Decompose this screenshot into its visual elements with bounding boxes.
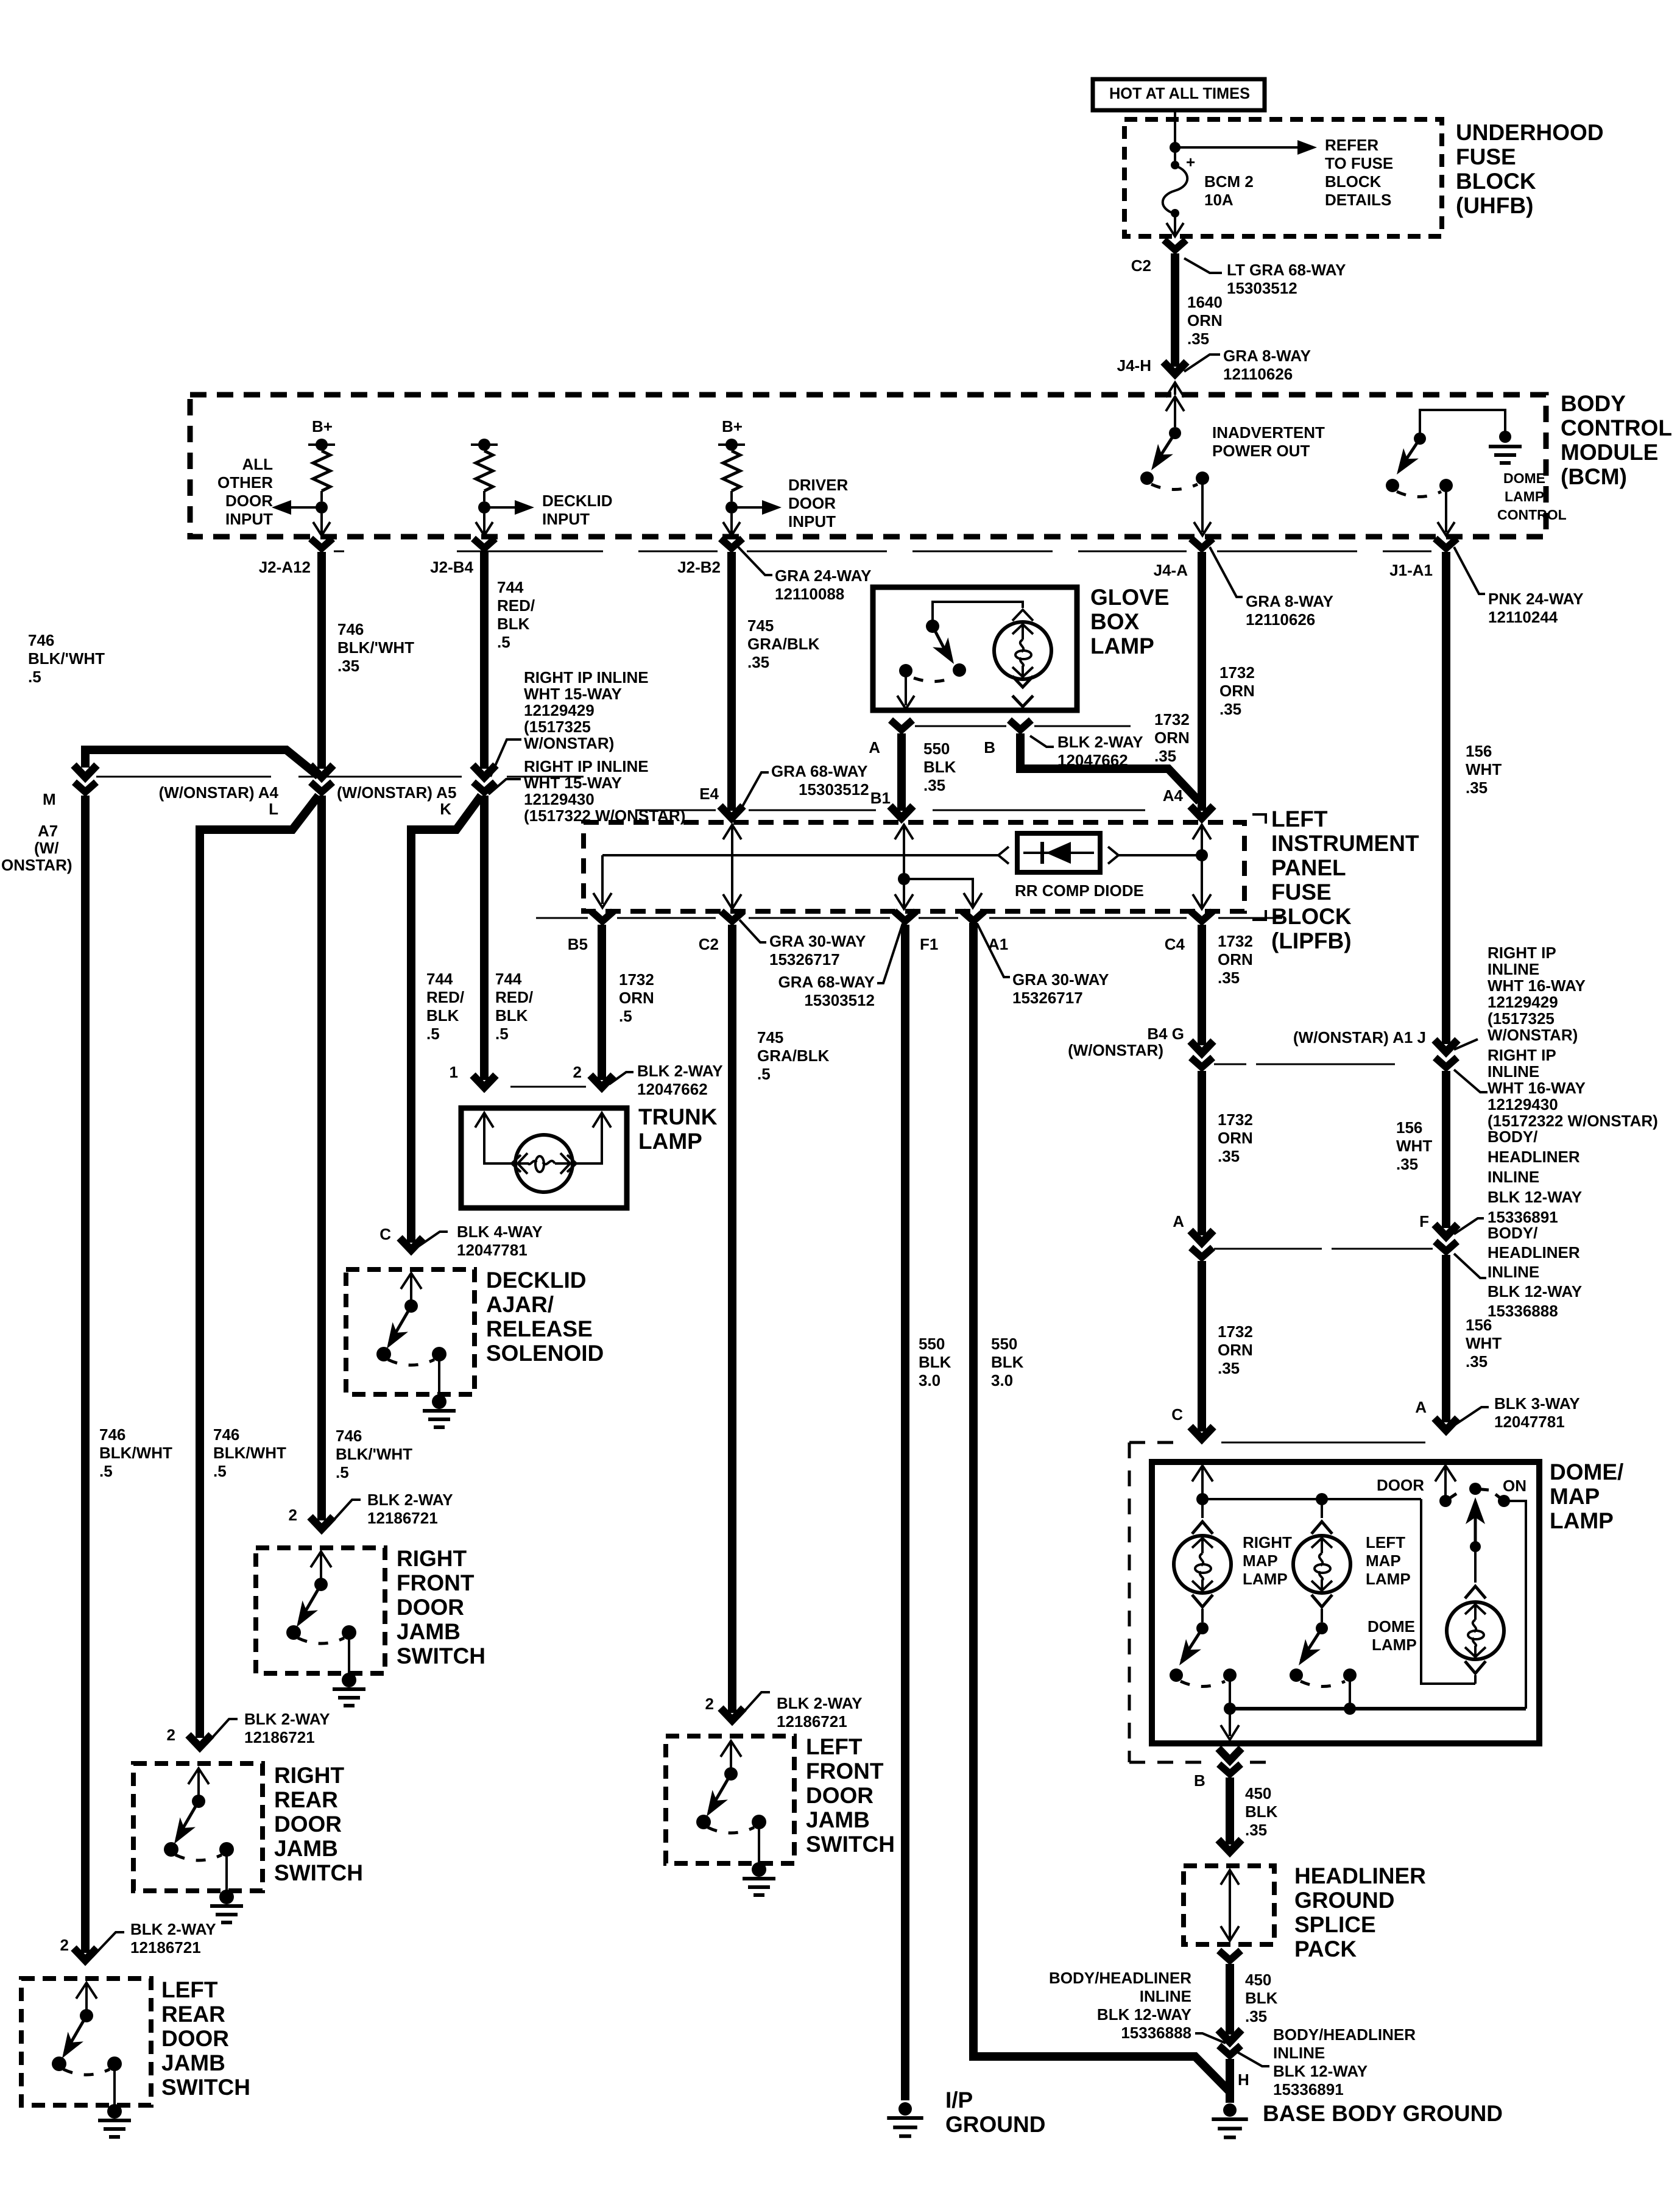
svg-text:RIGHT IP: RIGHT IP xyxy=(1488,944,1556,962)
svg-text:BLK/'WHT: BLK/'WHT xyxy=(337,638,414,657)
wire: DRIVER DOOR INPUT arrow xyxy=(732,506,767,509)
svg-text:B+: B+ xyxy=(722,417,743,436)
svg-text:.5: .5 xyxy=(757,1065,771,1083)
switch: BCM inadvertent power out driver xyxy=(1166,397,1184,411)
svg-text:RED/: RED/ xyxy=(497,596,535,615)
connector A (glove box lamp) xyxy=(891,720,912,730)
svg-text:A: A xyxy=(1415,1398,1427,1416)
svg-text:.35: .35 xyxy=(1466,1352,1488,1371)
svg-text:745: 745 xyxy=(747,616,774,635)
svg-text:1640: 1640 xyxy=(1187,293,1223,311)
svg-text:.5: .5 xyxy=(426,1025,440,1043)
svg-text:1: 1 xyxy=(450,1063,458,1081)
svg-text:JAMB: JAMB xyxy=(274,1836,338,1861)
svg-text:2: 2 xyxy=(289,1506,297,1524)
svg-text:.35: .35 xyxy=(1245,1821,1267,1839)
svg-text:C4: C4 xyxy=(1165,935,1185,953)
svg-text:(1517325: (1517325 xyxy=(1488,1009,1555,1028)
wire 1732 ORN 0.35: LIPFB C4 down to headliner inline G xyxy=(1198,925,1206,1045)
svg-text:12110626: 12110626 xyxy=(1223,365,1293,383)
svg-text:I/P: I/P xyxy=(945,2088,973,2113)
svg-text:BLK 4-WAY: BLK 4-WAY xyxy=(457,1223,543,1241)
svg-text:746: 746 xyxy=(213,1425,239,1444)
connector A1 (LIPFB): GRA 30-WAY 15326717 xyxy=(962,911,984,921)
svg-text:BCM 2: BCM 2 xyxy=(1204,172,1254,191)
svg-text:A7: A7 xyxy=(38,822,58,840)
connector F1 (LIPFB): GRA 68-WAY 15303512 xyxy=(894,911,916,921)
svg-text:BLK: BLK xyxy=(1245,1802,1278,1821)
svg-text:J2-B4: J2-B4 xyxy=(430,558,473,576)
diode D1: RR COMP DIODE xyxy=(998,847,1009,864)
svg-text:1732: 1732 xyxy=(1218,1322,1253,1341)
power feed label: HOT AT ALL TIMES xyxy=(1093,79,1265,110)
svg-text:1732: 1732 xyxy=(1218,932,1253,950)
connector pin 2 (trunk lamp): BLK 2-WAY 12047662 xyxy=(590,1075,613,1087)
wire 156 WHT 0.35: inline J down to body/headliner inline F xyxy=(1442,1071,1450,1228)
node: ground rail splice left map xyxy=(1344,1703,1356,1715)
svg-text:BLK 12-WAY: BLK 12-WAY xyxy=(1488,1282,1582,1301)
connector F / A inline: BODY/HEADLINER INLINE BLK 12-WAY xyxy=(1435,1224,1458,1237)
svg-text:C: C xyxy=(1171,1405,1183,1424)
svg-text:SWITCH: SWITCH xyxy=(806,1832,895,1857)
svg-text:LAMP: LAMP xyxy=(1243,1570,1288,1588)
svg-text:.35: .35 xyxy=(1245,2007,1267,2025)
svg-text:ORN: ORN xyxy=(1218,1341,1253,1359)
svg-text:INLINE: INLINE xyxy=(1488,1263,1539,1281)
svg-text:ORN: ORN xyxy=(1187,311,1223,330)
wire 746 BLK/WHT 0.5: branch to inline connector M xyxy=(85,750,319,776)
svg-text:GRA 30-WAY: GRA 30-WAY xyxy=(769,932,866,950)
wire 156 WHT 0.35: BCM J1-A1 down to right IP inline J xyxy=(1442,552,1450,1044)
wire 1732 ORN 0.35: BCM J4-A down to LIPFB A4 xyxy=(1198,552,1206,811)
svg-text:REAR: REAR xyxy=(274,1787,338,1812)
svg-text:BLOCK: BLOCK xyxy=(1325,172,1382,191)
lamp: dome lamp bulb xyxy=(1474,1547,1477,1583)
svg-text:.35: .35 xyxy=(1187,330,1209,348)
connector below splice pack xyxy=(1219,1951,1241,1960)
svg-text:.35: .35 xyxy=(923,776,945,794)
connector B (glove box lamp): BLK 2-WAY 12047662 xyxy=(1009,720,1031,730)
svg-text:E4: E4 xyxy=(699,785,719,803)
connector J1-A1 (BCM): PNK 24-WAY 12110244 xyxy=(1435,538,1457,548)
svg-text:MAP: MAP xyxy=(1366,1552,1401,1570)
svg-text:GRA 8-WAY: GRA 8-WAY xyxy=(1246,592,1333,610)
switch: left rear door jamb switch contacts xyxy=(76,1983,97,1999)
svg-text:15303512: 15303512 xyxy=(1227,279,1297,297)
svg-text:ORN: ORN xyxy=(1219,682,1255,700)
wire 746 BLK/WHT 0.5: connector M down to left rear door jamb switch xyxy=(81,796,90,1953)
svg-text:.5: .5 xyxy=(619,1007,632,1025)
wire: connector row line at trunk lamp xyxy=(510,1086,586,1088)
connector H inline: BODY/HEADLINER INLINE BLK 12-WAY 15336891 xyxy=(1218,2030,1241,2042)
svg-text:156: 156 xyxy=(1396,1118,1422,1137)
ground G400: BASE BODY GROUND xyxy=(1223,2103,1237,2117)
wire 1640 ORN 0.35: UHFB C2 to BCM J4-H xyxy=(1171,253,1179,367)
switch: right map lamp switch xyxy=(1196,1622,1209,1634)
wire: refer-to-fuse-block arrow xyxy=(1175,146,1297,149)
svg-text:INLINE: INLINE xyxy=(1140,1987,1191,2005)
svg-text:BLOCK: BLOCK xyxy=(1271,904,1352,929)
svg-text:BODY/HEADLINER: BODY/HEADLINER xyxy=(1049,1969,1191,1987)
svg-text:DOOR: DOOR xyxy=(225,492,273,510)
svg-text:12129430: 12129430 xyxy=(524,790,595,808)
svg-text:DETAILS: DETAILS xyxy=(1325,191,1391,209)
svg-text:(W/ONSTAR) A1 J: (W/ONSTAR) A1 J xyxy=(1293,1028,1426,1047)
svg-text:550: 550 xyxy=(923,740,950,758)
glove box lamp assembly box xyxy=(873,587,1077,710)
dome/map lamp outer dashed outline xyxy=(1129,1441,1185,1444)
svg-text:INADVERTENT: INADVERTENT xyxy=(1212,423,1325,442)
svg-text:POWER OUT: POWER OUT xyxy=(1212,442,1310,460)
svg-text:J1-A1: J1-A1 xyxy=(1389,561,1433,579)
svg-text:.35: .35 xyxy=(1218,969,1240,987)
svg-text:GRA/BLK: GRA/BLK xyxy=(757,1047,830,1065)
svg-text:BOX: BOX xyxy=(1090,609,1140,634)
wire: glove box B to BCM 1732 ORN splice at A4 xyxy=(1020,733,1199,802)
wire: dome/map lamp C entry xyxy=(1192,1466,1213,1481)
svg-text:RELEASE: RELEASE xyxy=(486,1316,593,1341)
svg-text:(BCM): (BCM) xyxy=(1561,464,1627,489)
svg-text:2: 2 xyxy=(167,1726,175,1744)
svg-text:HEADLINER: HEADLINER xyxy=(1488,1243,1580,1262)
svg-text:AJAR/: AJAR/ xyxy=(486,1292,554,1317)
connector C2 (LIPFB): GRA 30-WAY 15326717 xyxy=(721,911,743,921)
svg-text:LEFT: LEFT xyxy=(1366,1533,1405,1552)
ground: BCM dome lamp control internal ground xyxy=(1499,431,1511,443)
svg-text:DECKLID: DECKLID xyxy=(542,492,613,510)
node: map lamp feed splice left xyxy=(1316,1493,1328,1505)
wire 550 BLK 0.35: glove box A to LIPFB B1 xyxy=(897,733,906,811)
left rear door jamb switch outline xyxy=(21,1979,151,2105)
svg-text:.5: .5 xyxy=(28,668,41,686)
svg-text:RIGHT IP INLINE: RIGHT IP INLINE xyxy=(524,668,649,687)
wire: connector row line below LIPFB xyxy=(536,917,588,919)
svg-text:1732: 1732 xyxy=(619,970,654,989)
svg-text:FUSE: FUSE xyxy=(1456,144,1516,169)
left front door jamb switch outline xyxy=(666,1736,794,1863)
right IP inline label WHT 15-WAY 12129430 xyxy=(489,779,521,794)
svg-text:(W/ONSTAR) A5: (W/ONSTAR) A5 xyxy=(337,783,456,802)
svg-text:WHT: WHT xyxy=(1396,1137,1432,1155)
connector C4 (LIPFB) xyxy=(1191,911,1213,921)
svg-text:BLK 2-WAY: BLK 2-WAY xyxy=(637,1062,723,1080)
svg-text:DOOR: DOOR xyxy=(161,2026,229,2051)
wire: glove box lamp ground side chevrons xyxy=(1012,676,1033,687)
svg-text:OTHER: OTHER xyxy=(217,473,273,492)
wire 1732 ORN 0.35: inline G down to inline A xyxy=(1198,1071,1206,1235)
wire 746 BLK/WHT 0.5: A4-L jog down to right rear door jamb switch xyxy=(200,796,319,830)
svg-text:3.0: 3.0 xyxy=(919,1371,941,1389)
svg-text:BLK: BLK xyxy=(923,758,956,776)
svg-text:(LIPFB): (LIPFB) xyxy=(1271,928,1352,953)
svg-text:WHT: WHT xyxy=(1466,1334,1502,1352)
wire 156 WHT 0.35: inline F down to dome/map lamp A xyxy=(1442,1255,1450,1422)
wire: LIPFB branch B1 to A1 xyxy=(904,879,973,905)
wire 450 BLK 0.35: splice pack to body/headliner inline H xyxy=(1226,1964,1234,2035)
svg-text:DRIVER: DRIVER xyxy=(788,476,848,494)
svg-text:BLK: BLK xyxy=(426,1006,459,1025)
dome/map lamp assembly box xyxy=(1152,1462,1539,1743)
svg-text:12186721: 12186721 xyxy=(777,1712,847,1731)
svg-text:746: 746 xyxy=(28,631,54,649)
connector C2 (UHFB): LT GRA 68-WAY 15303512 xyxy=(1164,240,1186,250)
svg-text:LAMP: LAMP xyxy=(1366,1570,1411,1588)
wire: connector row line at B4-G / A1-J inline xyxy=(1214,1064,1246,1065)
svg-text:F1: F1 xyxy=(920,935,938,953)
svg-text:ONSTAR): ONSTAR) xyxy=(1,856,72,874)
svg-text:GRA 8-WAY: GRA 8-WAY xyxy=(1223,347,1311,365)
ground G200: I/P GROUND xyxy=(898,2102,912,2116)
connector pin 1 (trunk lamp) xyxy=(473,1075,496,1087)
svg-text:DOOR: DOOR xyxy=(397,1595,464,1620)
wire: connector row line at dome/map lamp entries xyxy=(1221,1442,1425,1444)
svg-text:BLK 12-WAY: BLK 12-WAY xyxy=(1273,2062,1368,2080)
wire: battery feed into fuse BCM 2 xyxy=(1174,110,1176,144)
svg-text:RIGHT: RIGHT xyxy=(397,1546,467,1571)
wire: connector row line above LIPFB xyxy=(635,810,716,811)
svg-text:GRA 68-WAY: GRA 68-WAY xyxy=(771,762,867,780)
svg-text:.5: .5 xyxy=(495,1025,509,1043)
svg-text:BLK 12-WAY: BLK 12-WAY xyxy=(1097,2005,1191,2024)
node: splice above fuse xyxy=(1170,142,1181,153)
svg-text:LEFT: LEFT xyxy=(1271,807,1328,831)
svg-text:LAMP: LAMP xyxy=(1550,1508,1614,1533)
svg-text:.5: .5 xyxy=(99,1462,113,1480)
node: LIPFB A4 splice xyxy=(1196,849,1208,861)
svg-text:ORN: ORN xyxy=(1218,1129,1253,1147)
svg-text:PNK 24-WAY: PNK 24-WAY xyxy=(1488,590,1584,608)
svg-text:FRONT: FRONT xyxy=(397,1570,475,1595)
svg-text:12186721: 12186721 xyxy=(130,1938,201,1957)
svg-text:LT GRA 68-WAY: LT GRA 68-WAY xyxy=(1227,261,1346,279)
svg-text:BODY/: BODY/ xyxy=(1488,1128,1537,1146)
svg-text:C2: C2 xyxy=(699,935,719,953)
svg-text:12129429: 12129429 xyxy=(1488,993,1558,1011)
wire: LIPFB E4 feed-through xyxy=(731,826,733,906)
svg-text:.35: .35 xyxy=(337,657,359,675)
lamp: right map lamp bulb xyxy=(1201,1499,1204,1518)
wire: connector row line below BCM xyxy=(334,551,344,552)
svg-text:744: 744 xyxy=(497,578,524,596)
svg-text:BLK/'WHT: BLK/'WHT xyxy=(336,1445,412,1463)
wire: dome/map lamp ground rail xyxy=(1230,1707,1526,1710)
decklid ajar/release solenoid outline xyxy=(346,1269,475,1394)
wire: dome lamp feed drop xyxy=(1421,1499,1475,1684)
connector E4 (LIPFB): GRA 68-WAY 15303512 xyxy=(720,806,743,818)
svg-text:WHT: WHT xyxy=(1466,760,1502,778)
svg-text:K: K xyxy=(440,800,451,818)
svg-text:HEADLINER: HEADLINER xyxy=(1488,1148,1580,1166)
svg-text:3.0: 3.0 xyxy=(991,1371,1013,1389)
svg-text:LEFT: LEFT xyxy=(161,1977,218,2002)
svg-text:12186721: 12186721 xyxy=(244,1728,315,1746)
wire: map lamp feed bus xyxy=(1202,1498,1421,1500)
svg-text:A4: A4 xyxy=(1163,786,1184,805)
trunk lamp assembly box xyxy=(461,1108,627,1208)
svg-text:SPLICE: SPLICE xyxy=(1294,1912,1376,1937)
svg-text:JAMB: JAMB xyxy=(806,1807,870,1832)
svg-text:GROUND: GROUND xyxy=(945,2112,1045,2137)
svg-text:J4-H: J4-H xyxy=(1117,356,1151,375)
connector C (decklid solenoid): BLK 4-WAY 12047781 xyxy=(400,1238,423,1250)
lamp: left map lamp bulb xyxy=(1321,1499,1323,1518)
svg-text:.35: .35 xyxy=(1154,747,1176,765)
lamp: trunk lamp bulb xyxy=(515,1135,573,1192)
switch: decklid ajar switch xyxy=(401,1273,422,1289)
svg-text:F: F xyxy=(1419,1212,1429,1230)
svg-text:RR COMP DIODE: RR COMP DIODE xyxy=(1015,881,1144,900)
svg-text:12110244: 12110244 xyxy=(1488,608,1558,626)
svg-text:10A: 10A xyxy=(1204,191,1234,209)
svg-text:.35: .35 xyxy=(1218,1359,1240,1377)
wire 744 RED/BLK 0.5: K down to trunk lamp pin 1 xyxy=(480,796,489,1080)
svg-text:12047781: 12047781 xyxy=(1494,1413,1565,1431)
svg-text:GRA 24-WAY: GRA 24-WAY xyxy=(775,567,871,585)
svg-text:15303512: 15303512 xyxy=(799,780,869,799)
body control module (BCM) outline xyxy=(190,395,1546,537)
svg-text:15336891: 15336891 xyxy=(1273,2080,1344,2099)
svg-text:LAMP: LAMP xyxy=(1372,1636,1417,1654)
svg-text:FRONT: FRONT xyxy=(806,1759,884,1784)
svg-text:WHT 15-WAY: WHT 15-WAY xyxy=(524,685,622,703)
connector J4-H (BCM): GRA 8-WAY 12110626 xyxy=(1163,362,1187,374)
svg-text:SWITCH: SWITCH xyxy=(274,1860,363,1885)
svg-text:CONTROL: CONTROL xyxy=(1561,415,1672,440)
switch: glove box lamp switch xyxy=(926,620,939,633)
svg-text:J4-A: J4-A xyxy=(1154,561,1188,579)
svg-text:FUSE: FUSE xyxy=(1271,880,1332,905)
connector M / A7 (W/ONSTAR) inline xyxy=(74,765,97,777)
svg-text:15336888: 15336888 xyxy=(1121,2024,1191,2042)
connector J2-A12 (BCM) xyxy=(311,538,333,548)
wire: entry arrow into BCM xyxy=(1166,383,1184,397)
wire: LIPFB internal bus to B5 xyxy=(602,854,998,856)
svg-text:RIGHT IP: RIGHT IP xyxy=(1488,1046,1556,1064)
svg-text:156: 156 xyxy=(1466,742,1492,760)
node: map lamp feed splice right xyxy=(1196,1493,1209,1505)
connector J2-B2 (BCM): GRA 24-WAY 12110088 xyxy=(721,538,743,548)
svg-text:746: 746 xyxy=(336,1427,362,1445)
svg-text:WHT 15-WAY: WHT 15-WAY xyxy=(524,774,622,792)
svg-text:MODULE: MODULE xyxy=(1561,440,1658,465)
wire 746 BLK/WHT 0.35: BCM J2-A12 down to W/ONSTAR inline xyxy=(317,552,326,769)
svg-text:RIGHT: RIGHT xyxy=(274,1763,345,1788)
svg-text:.35: .35 xyxy=(1219,700,1241,718)
svg-text:RED/: RED/ xyxy=(495,988,533,1006)
svg-text:ORN: ORN xyxy=(1154,729,1190,747)
svg-text:UNDERHOOD: UNDERHOOD xyxy=(1456,120,1604,145)
svg-text:PACK: PACK xyxy=(1294,1936,1357,1961)
svg-text:1732: 1732 xyxy=(1154,710,1190,729)
svg-text:RIGHT: RIGHT xyxy=(1243,1533,1292,1552)
right IP inline label WHT 15-WAY 12129429 xyxy=(490,740,521,777)
svg-text:450: 450 xyxy=(1245,1971,1271,1989)
svg-text:BLK: BLK xyxy=(919,1353,951,1371)
svg-text:WHT 16-WAY: WHT 16-WAY xyxy=(1488,976,1586,995)
svg-text:INLINE: INLINE xyxy=(1273,2044,1325,2062)
right rear door jamb switch outline xyxy=(133,1763,263,1891)
svg-text:GROUND: GROUND xyxy=(1294,1888,1394,1913)
svg-text:12110626: 12110626 xyxy=(1246,610,1315,629)
svg-text:12129430: 12129430 xyxy=(1488,1095,1558,1114)
wire 746 BLK/WHT 0.5: J2-A12 down to right front door jamb switch xyxy=(317,796,326,1520)
svg-text:BASE BODY GROUND: BASE BODY GROUND xyxy=(1263,2101,1503,2126)
svg-text:BLK 2-WAY: BLK 2-WAY xyxy=(244,1710,330,1728)
svg-text:.5: .5 xyxy=(213,1462,227,1480)
svg-text:12186721: 12186721 xyxy=(367,1509,438,1527)
connector (W/ONSTAR) A1 / J inline: RIGHT IP INLINE WHT 16-WAY xyxy=(1435,1040,1458,1052)
connector B5 (LIPFB) xyxy=(591,911,613,921)
svg-text:12047662: 12047662 xyxy=(637,1080,708,1098)
svg-text:BLK 2-WAY: BLK 2-WAY xyxy=(130,1920,216,1938)
wire 744 RED/BLK 0.5: BCM J2-B4 down to W/ONSTAR inline xyxy=(480,552,489,769)
svg-text:C2: C2 xyxy=(1131,256,1151,275)
svg-text:BODY: BODY xyxy=(1561,391,1626,416)
svg-text:(W/ONSTAR): (W/ONSTAR) xyxy=(1068,1041,1163,1059)
connector B (dome/map lamp) xyxy=(1218,1748,1241,1760)
svg-text:M: M xyxy=(43,790,56,808)
wire 745 GRA/BLK 0.5: LIPFB C2 down to left front door jamb switch xyxy=(728,925,736,1713)
svg-text:SWITCH: SWITCH xyxy=(161,2075,250,2100)
svg-text:B+: B+ xyxy=(312,417,333,436)
svg-text:746: 746 xyxy=(99,1425,125,1444)
svg-text:15326717: 15326717 xyxy=(769,950,840,969)
svg-text:LEFT: LEFT xyxy=(806,1734,863,1759)
svg-text:W/ONSTAR): W/ONSTAR) xyxy=(1488,1026,1578,1044)
wire: trunk lamp feed pin 2 xyxy=(593,1113,611,1128)
wire 1732 ORN 0.5: LIPFB B5 down to trunk lamp pin 2 xyxy=(598,925,606,1080)
connector J2-B4 (BCM) xyxy=(473,538,495,548)
svg-text:INLINE: INLINE xyxy=(1488,960,1539,978)
svg-text:INPUT: INPUT xyxy=(788,512,836,531)
svg-text:12129429: 12129429 xyxy=(524,701,595,719)
connector pin 2 (right front door jamb switch): BLK 2-WAY 12186721 xyxy=(310,1517,333,1529)
svg-text:.35: .35 xyxy=(1218,1147,1240,1165)
svg-text:W/ONSTAR): W/ONSTAR) xyxy=(524,734,614,752)
wire: trunk lamp feed pin 1 xyxy=(475,1113,493,1128)
svg-text:.5: .5 xyxy=(497,633,510,651)
svg-text:DOME: DOME xyxy=(1503,470,1545,486)
wire: fuse output arrow to UHFB edge xyxy=(1174,214,1176,234)
svg-text:BLK/'WHT: BLK/'WHT xyxy=(28,649,105,668)
svg-text:TO FUSE: TO FUSE xyxy=(1325,154,1393,172)
svg-text:744: 744 xyxy=(426,970,453,988)
svg-text:JAMB: JAMB xyxy=(161,2050,225,2075)
svg-text:BLK: BLK xyxy=(1245,1989,1278,2007)
svg-text:15303512: 15303512 xyxy=(804,991,875,1009)
connector A (dome/map lamp): BLK 3-WAY 12047781 xyxy=(1435,1418,1458,1430)
svg-text:DOME/: DOME/ xyxy=(1550,1460,1623,1485)
svg-text:.5: .5 xyxy=(336,1463,349,1481)
headliner ground splice pack outline xyxy=(1184,1866,1274,1944)
svg-text:(1517325: (1517325 xyxy=(524,718,591,736)
svg-text:HOT AT ALL TIMES: HOT AT ALL TIMES xyxy=(1109,84,1250,102)
svg-text:(UHFB): (UHFB) xyxy=(1456,193,1533,218)
connector A4 (LIPFB) xyxy=(1190,806,1213,818)
svg-text:INLINE: INLINE xyxy=(1488,1062,1539,1081)
svg-text:550: 550 xyxy=(991,1335,1017,1353)
svg-text:B5: B5 xyxy=(568,935,588,953)
connector A inline (1732 ORN) xyxy=(1190,1230,1213,1243)
svg-text:745: 745 xyxy=(757,1028,783,1047)
svg-text:RIGHT IP INLINE: RIGHT IP INLINE xyxy=(524,757,649,775)
svg-text:BLK 2-WAY: BLK 2-WAY xyxy=(1057,733,1143,751)
svg-text:ORN: ORN xyxy=(1218,950,1253,969)
svg-text:B4 G: B4 G xyxy=(1147,1025,1184,1043)
svg-text:744: 744 xyxy=(495,970,522,988)
svg-text:12110088: 12110088 xyxy=(775,585,844,603)
resistor: BCM pull-up for decklid input xyxy=(478,439,490,451)
